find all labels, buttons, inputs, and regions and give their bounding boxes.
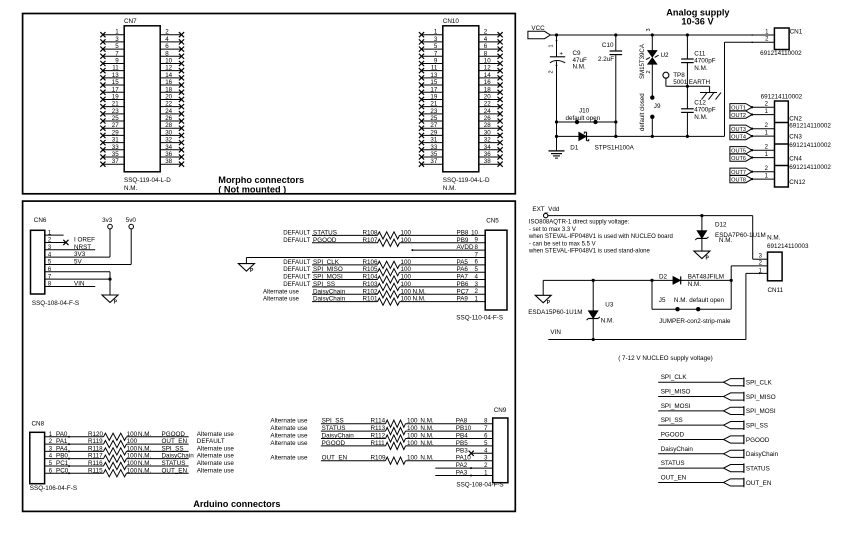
svg-text:N.M.: N.M.	[420, 455, 434, 462]
svg-text:SSQ-106-04-F-S: SSQ-106-04-F-S	[30, 485, 77, 492]
svg-text:4700pF: 4700pF	[694, 107, 716, 114]
ground D12	[694, 251, 710, 262]
svg-text:CN4: CN4	[789, 156, 802, 163]
svg-text:R108: R108	[363, 229, 379, 236]
svg-text:N.M.: N.M.	[694, 114, 708, 121]
svg-text:18: 18	[165, 86, 172, 93]
resistor R103 row SPI_SS to PB6	[283, 281, 485, 291]
svg-text:TP8: TP8	[673, 72, 685, 79]
svg-text:PA6: PA6	[457, 266, 469, 273]
svg-text:default closed: default closed	[639, 93, 646, 131]
svg-text:28: 28	[484, 122, 491, 129]
svg-text:SSQ-119-04-L-D: SSQ-119-04-L-D	[124, 177, 171, 184]
svg-text:NRST: NRST	[74, 244, 91, 251]
svg-text:38: 38	[165, 158, 172, 165]
wire CN1 pin2 to bottom bus	[725, 34, 775, 136]
svg-text:- set to max 3.3 V: - set to max 3.3 V	[529, 227, 576, 233]
svg-text:5v0: 5v0	[126, 217, 137, 224]
svg-text:R116: R116	[88, 460, 103, 467]
svg-text:12: 12	[165, 65, 172, 72]
svg-text:CN11: CN11	[768, 287, 784, 294]
svg-text:35: 35	[430, 151, 437, 158]
svg-text:N.M.: N.M.	[767, 234, 781, 241]
resistor R120 row PA0 to PGOOD	[45, 431, 235, 441]
svg-text:CN7: CN7	[124, 18, 137, 25]
note text ISO808 supply voltage	[528, 220, 673, 255]
svg-text:STATUS: STATUS	[661, 460, 685, 467]
Morpho connectors outline box	[23, 14, 516, 194]
svg-text:100: 100	[127, 453, 138, 460]
junction bottom bus at C12	[686, 135, 689, 138]
svg-text:J5: J5	[659, 297, 666, 304]
svg-text:31: 31	[112, 137, 119, 144]
connector CN11 691214110003	[759, 234, 809, 293]
svg-text:D2: D2	[659, 274, 668, 281]
svg-text:1: 1	[549, 44, 555, 47]
connector CN7	[100, 18, 184, 192]
resistor R113 row STATUS to PB10	[270, 425, 492, 435]
svg-text:11: 11	[112, 65, 119, 72]
svg-text:N.M.: N.M.	[688, 281, 702, 288]
resistor R115 row PC0 to OUT_EN	[45, 467, 235, 477]
svg-text:28: 28	[165, 122, 172, 129]
svg-text:32: 32	[484, 137, 491, 144]
svg-text:VIN: VIN	[550, 329, 561, 336]
svg-text:when STEVAL-IFP048V1 is used s: when STEVAL-IFP048V1 is used stand-alone	[528, 249, 651, 255]
svg-text:5: 5	[434, 43, 438, 50]
svg-text:8: 8	[165, 50, 169, 57]
svg-text:100: 100	[127, 467, 138, 474]
resistor R117 row PB0 to DaisyChain	[45, 453, 235, 463]
svg-text:100: 100	[407, 425, 418, 432]
svg-text:N.M.: N.M.	[138, 453, 152, 460]
wire CN9 pin2 stub	[435, 462, 492, 469]
svg-text:Arduino connectors: Arduino connectors	[193, 499, 280, 509]
ground CN5 pin7	[238, 264, 254, 275]
resistor R112 row DaisyChain to PB4	[270, 433, 492, 443]
svg-text:N.M.: N.M.	[413, 296, 427, 303]
svg-text:17: 17	[112, 86, 119, 93]
svg-text:23: 23	[112, 108, 119, 115]
svg-text:OUT8: OUT8	[731, 177, 746, 183]
signal flag PGOOD	[658, 431, 770, 444]
svg-text:R120: R120	[88, 431, 104, 438]
wire CN5 pin7 to ground	[246, 257, 485, 263]
svg-text:13: 13	[112, 72, 119, 79]
resistor R101 row DaisyChain to PA9	[263, 296, 485, 306]
svg-text:R102: R102	[363, 288, 379, 295]
svg-text:N.M.: N.M.	[674, 297, 688, 304]
svg-text:2: 2	[549, 70, 555, 73]
svg-text:( 7-12 V NUCLEO supply voltage: ( 7-12 V NUCLEO supply voltage)	[618, 355, 713, 362]
wire EXT_Vdd feed net	[543, 279, 731, 281]
svg-text:31: 31	[430, 137, 437, 144]
svg-text:691214110002: 691214110002	[760, 50, 802, 57]
svg-text:R113: R113	[371, 425, 386, 432]
svg-text:C11: C11	[694, 51, 706, 58]
svg-text:PB6: PB6	[457, 281, 469, 288]
svg-text:DaisyChain: DaisyChain	[661, 446, 694, 453]
svg-text:Alternate use: Alternate use	[197, 467, 235, 474]
svg-text:7: 7	[115, 50, 119, 57]
capacitor C10 2.2uF	[598, 35, 622, 136]
wire CN6 pin5 5V	[45, 258, 131, 265]
connector block CN2 CN3 CN4 CN12	[761, 93, 832, 187]
svg-text:OUT_EN: OUT_EN	[746, 480, 772, 487]
capacitor C12 4700pF	[681, 86, 716, 136]
svg-text:100: 100	[401, 296, 412, 303]
svg-text:N.M.: N.M.	[694, 65, 708, 72]
svg-text:R119: R119	[88, 438, 103, 445]
wire CN11 pin2 to D2 cathode	[731, 266, 767, 281]
svg-text:SSQ-110-04-F-S: SSQ-110-04-F-S	[456, 314, 503, 321]
ground ESDA15P60	[528, 280, 582, 316]
junction top bus at U2	[651, 33, 654, 36]
svg-text:R105: R105	[363, 266, 379, 273]
svg-text:DEFAULT: DEFAULT	[283, 237, 310, 244]
svg-text:14: 14	[165, 72, 172, 79]
svg-text:OUT6: OUT6	[731, 156, 746, 162]
svg-text:OUT4: OUT4	[731, 134, 746, 140]
svg-text:691214110002: 691214110002	[789, 164, 831, 171]
svg-text:24: 24	[165, 108, 172, 115]
svg-text:5V: 5V	[74, 258, 83, 265]
svg-text:N.M.: N.M.	[573, 64, 587, 71]
svg-text:25: 25	[430, 115, 437, 122]
svg-text:PB5: PB5	[456, 440, 468, 447]
junction bottom bus at C9	[555, 135, 558, 138]
svg-text:2: 2	[646, 70, 652, 73]
svg-text:PA5: PA5	[457, 259, 469, 266]
svg-text:DEFAULT: DEFAULT	[197, 438, 225, 445]
junction top bus at C9	[555, 33, 558, 36]
svg-text:DaisyChain: DaisyChain	[746, 451, 779, 458]
svg-text:R103: R103	[363, 281, 379, 288]
svg-text:30: 30	[165, 129, 172, 136]
svg-text:CN1: CN1	[790, 28, 803, 35]
svg-text:5: 5	[115, 43, 119, 50]
svg-text:CN6: CN6	[34, 217, 47, 224]
junction top bus at C11	[686, 33, 689, 36]
svg-text:29: 29	[112, 129, 119, 136]
junction CN6 gnd	[108, 278, 111, 281]
jumper J10 default open	[555, 108, 618, 125]
TVS diode U2 SM15T39CA	[639, 28, 669, 97]
svg-text:16: 16	[484, 79, 491, 86]
svg-text:27: 27	[430, 122, 437, 129]
power flag VCC	[528, 25, 550, 39]
svg-text:Alternate use: Alternate use	[263, 296, 300, 303]
svg-text:3v3: 3v3	[102, 217, 113, 224]
svg-text:37: 37	[430, 158, 437, 165]
svg-text:2: 2	[165, 29, 169, 36]
svg-text:33: 33	[430, 144, 437, 151]
junction EXT_Vdd at D12	[700, 214, 703, 217]
svg-text:SPI_SS: SPI_SS	[162, 445, 184, 452]
svg-text:- can be set to max 5.5 V: - can be set to max 5.5 V	[529, 241, 596, 247]
svg-text:22: 22	[484, 101, 491, 108]
label Morpho connectors title	[218, 175, 304, 194]
svg-text:ISO808AQTR-1 direct supply vol: ISO808AQTR-1 direct supply voltage:	[529, 220, 630, 226]
svg-text:R107: R107	[363, 237, 379, 244]
svg-text:JUMPER-con2-strip-male: JUMPER-con2-strip-male	[659, 318, 731, 325]
svg-text:ESDA15P60-1U1M: ESDA15P60-1U1M	[528, 309, 582, 316]
svg-text:J10: J10	[579, 108, 590, 115]
svg-text:SPI_CLK: SPI_CLK	[746, 380, 773, 387]
svg-text:SPI_MISO: SPI_MISO	[746, 394, 776, 401]
resistor R114 row SPI_SS to PA8	[270, 418, 492, 428]
svg-text:N.M.: N.M.	[443, 185, 457, 192]
svg-text:100: 100	[401, 259, 412, 266]
svg-text:CN12: CN12	[789, 179, 806, 186]
svg-text:Alternate use: Alternate use	[270, 425, 308, 432]
svg-text:PB9: PB9	[457, 237, 469, 244]
wire CN6 pin8 VIN	[45, 280, 95, 287]
junction bottom bus at U2	[651, 135, 654, 138]
svg-text:N.M.: N.M.	[420, 440, 434, 447]
svg-text:I OREF: I OREF	[74, 236, 95, 243]
resistor R111 row PGOOD to PB5	[270, 440, 492, 450]
signal flag SPI_MISO	[658, 389, 776, 402]
svg-text:PGOOD: PGOOD	[162, 431, 186, 438]
Arduino connectors outline box	[23, 201, 516, 511]
svg-text:3V3: 3V3	[74, 251, 86, 258]
connector CN10	[419, 18, 503, 192]
wire CN6 pin1 stub	[45, 234, 64, 236]
svg-text:36: 36	[165, 151, 172, 158]
test point TP8 5001	[663, 72, 710, 86]
svg-text:19: 19	[112, 93, 119, 100]
svg-text:12: 12	[484, 65, 491, 72]
svg-text:25: 25	[112, 115, 119, 122]
svg-text:21: 21	[112, 101, 119, 108]
svg-text:N.M.: N.M.	[420, 418, 434, 425]
svg-text:3: 3	[115, 36, 119, 43]
junction TP8 wire at C11C12	[686, 85, 689, 88]
svg-text:CN3: CN3	[789, 134, 802, 141]
svg-text:PA8: PA8	[456, 418, 468, 425]
svg-text:27: 27	[112, 122, 119, 129]
capacitor C11 4700pF	[681, 35, 716, 86]
ground CN6	[102, 295, 118, 306]
svg-text:PA2: PA2	[456, 462, 468, 469]
svg-text:1: 1	[115, 29, 119, 36]
svg-text:36: 36	[484, 151, 491, 158]
note text NUCLEO supply voltage	[618, 355, 713, 362]
svg-text:15: 15	[112, 79, 119, 86]
svg-text:SSQ-119-04-L-D: SSQ-119-04-L-D	[443, 177, 490, 184]
svg-text:100: 100	[401, 237, 412, 244]
diode U3 zener	[587, 280, 615, 339]
svg-text:SPI_MOSI: SPI_MOSI	[661, 403, 691, 410]
svg-text:100: 100	[127, 460, 138, 467]
svg-text:8: 8	[484, 50, 488, 57]
output flag OUT7 CN12 pin2	[730, 166, 775, 176]
svg-text:Alternate use: Alternate use	[270, 455, 308, 462]
svg-text:R109: R109	[371, 455, 387, 462]
svg-text:+: +	[559, 51, 563, 58]
svg-text:Alternate use: Alternate use	[197, 431, 235, 438]
svg-text:15: 15	[430, 79, 437, 86]
svg-text:1: 1	[434, 29, 438, 36]
svg-text:6: 6	[165, 43, 169, 50]
svg-text:30: 30	[484, 129, 491, 136]
svg-text:PGOOD: PGOOD	[661, 431, 685, 438]
svg-text:2.2uF: 2.2uF	[598, 56, 614, 63]
svg-text:SPI_SS: SPI_SS	[746, 423, 768, 430]
svg-text:DEFAULT: DEFAULT	[283, 259, 310, 266]
svg-text:D1: D1	[570, 145, 579, 152]
svg-text:11: 11	[431, 65, 438, 72]
svg-text:100: 100	[401, 229, 412, 236]
connector CN5	[456, 217, 507, 321]
svg-text:24: 24	[484, 108, 491, 115]
svg-text:PA3: PA3	[456, 470, 468, 477]
svg-text:100: 100	[407, 455, 418, 462]
svg-text:100: 100	[407, 440, 418, 447]
jumper J5 JUMPER-con2-strip-male	[652, 280, 731, 325]
resistor R105 row SPI_MISO to PA6	[283, 266, 485, 276]
svg-text:N.M.: N.M.	[124, 185, 138, 192]
svg-text:100: 100	[127, 445, 138, 452]
svg-text:PB4: PB4	[456, 433, 468, 440]
power symbol 5v0	[126, 217, 137, 264]
signal flag SPI_CLK	[658, 374, 772, 387]
svg-text:N.M.: N.M.	[138, 431, 152, 438]
svg-text:34: 34	[484, 144, 491, 151]
svg-text:4: 4	[165, 36, 169, 43]
svg-text:9: 9	[115, 57, 119, 64]
resistor R118 row PA4 to SPI_SS	[45, 445, 235, 455]
svg-text:DEFAULT: DEFAULT	[283, 229, 310, 236]
wire CN5 pin8 AVDD	[411, 244, 485, 251]
svg-text:C12: C12	[694, 99, 706, 106]
signal flag STATUS	[658, 460, 770, 473]
svg-text:PB8: PB8	[457, 229, 469, 236]
wire CN9 pin4 no-connect stub	[456, 447, 493, 456]
svg-text:100: 100	[127, 438, 138, 445]
svg-text:100: 100	[407, 418, 418, 425]
svg-text:34: 34	[165, 144, 172, 151]
svg-text:N.M.: N.M.	[420, 433, 434, 440]
svg-text:17: 17	[430, 86, 437, 93]
svg-text:23: 23	[430, 108, 437, 115]
output flag OUT6 CN4 pin1	[730, 152, 775, 162]
svg-text:13: 13	[430, 72, 437, 79]
resistor R109 row OUT_EN to PA10	[270, 455, 492, 465]
resistor R107 row PGOOD to PB9	[283, 237, 485, 247]
capacitor C9 47uF	[549, 35, 588, 136]
resistor R119 row PA1 to OUT_EN	[45, 438, 225, 448]
svg-text:DEFAULT: DEFAULT	[283, 266, 310, 273]
svg-text:R101: R101	[363, 296, 379, 303]
svg-text:29: 29	[430, 129, 437, 136]
svg-text:PGOOD: PGOOD	[746, 437, 770, 444]
svg-text:20: 20	[165, 93, 172, 100]
diode D12 ESDA7P60-1U1M	[695, 216, 765, 252]
signal flag SPI_MOSI	[658, 403, 776, 416]
svg-text:N.M.: N.M.	[719, 237, 733, 244]
resistor R104 row SPI_MOSI to PA7	[283, 274, 485, 284]
svg-text:OUT_EN: OUT_EN	[661, 474, 687, 481]
svg-text:SPI_SS: SPI_SS	[661, 417, 683, 424]
svg-text:3: 3	[434, 36, 438, 43]
svg-text:J9: J9	[654, 103, 661, 110]
svg-text:691214110002: 691214110002	[761, 93, 803, 100]
wire CN11 pin1 to VIN	[746, 273, 768, 340]
svg-text:100: 100	[401, 288, 412, 295]
svg-text:STPS1H100A: STPS1H100A	[595, 145, 635, 152]
svg-text:R115: R115	[88, 467, 103, 474]
svg-text:32: 32	[165, 137, 172, 144]
svg-text:5001: 5001	[673, 79, 688, 86]
resistor R102 row DaisyChain to PC7	[263, 288, 485, 298]
power terminal EXT_Vdd	[532, 206, 559, 218]
connector CN6	[31, 217, 80, 307]
svg-text:DEFAULT: DEFAULT	[283, 274, 310, 281]
svg-text:R118: R118	[88, 445, 103, 452]
svg-text:37: 37	[112, 158, 119, 165]
wire CN6 pin2 IOREF no-connect	[45, 236, 95, 245]
wire VCC top bus	[550, 34, 774, 36]
svg-text:6: 6	[484, 43, 488, 50]
resistor R108 row STATUS to PB8	[283, 229, 485, 239]
svg-text:D12: D12	[715, 222, 727, 229]
earth chassis symbol EARTH	[689, 79, 721, 99]
svg-text:Alternate use: Alternate use	[270, 433, 308, 440]
svg-text:100: 100	[401, 274, 412, 281]
junction top bus at C10	[614, 33, 617, 36]
junction VIN at U3	[592, 338, 595, 341]
svg-text:N.M.: N.M.	[138, 445, 152, 452]
output flag OUT5 CN4 pin2	[730, 145, 775, 155]
resistor R116 row PC1 to STATUS	[45, 460, 235, 470]
svg-text:691214110002: 691214110002	[789, 142, 831, 149]
wire CN6 pin4 3V3	[45, 251, 110, 258]
svg-text:BAT48JFILM: BAT48JFILM	[688, 274, 724, 281]
svg-text:691214110003: 691214110003	[767, 243, 809, 250]
svg-text:PB10: PB10	[456, 425, 472, 432]
wire CN6 pin3 NRST	[45, 244, 95, 251]
svg-text:Alternate use: Alternate use	[197, 460, 235, 467]
svg-text:26: 26	[165, 115, 172, 122]
svg-text:CN9: CN9	[494, 407, 507, 414]
svg-text:R111: R111	[371, 440, 386, 447]
svg-text:AVDD: AVDD	[457, 244, 474, 251]
svg-text:SSQ-108-04-F-S: SSQ-108-04-F-S	[32, 300, 79, 307]
svg-text:4700pF: 4700pF	[694, 58, 716, 65]
svg-text:DaisyChain: DaisyChain	[162, 453, 195, 460]
svg-text:N.M.: N.M.	[420, 425, 434, 432]
svg-text:C10: C10	[602, 42, 614, 49]
svg-text:OUT2: OUT2	[731, 113, 746, 119]
junction bottom bus at C10	[614, 135, 617, 138]
svg-text:35: 35	[112, 151, 119, 158]
ground analog	[549, 136, 565, 158]
svg-text:33: 33	[112, 144, 119, 151]
svg-text:26: 26	[484, 115, 491, 122]
svg-text:VIN: VIN	[74, 280, 85, 287]
output flag OUT3 CN3 pin2	[730, 123, 775, 133]
svg-text:100: 100	[407, 433, 418, 440]
power symbol 3v3	[102, 217, 113, 257]
label Analog supply title	[666, 8, 730, 27]
svg-text:N.M.: N.M.	[413, 288, 427, 295]
svg-text:Alternate use: Alternate use	[270, 418, 308, 425]
wire bottom bus	[557, 135, 725, 137]
svg-text:STATUS: STATUS	[746, 466, 770, 473]
svg-text:R114: R114	[371, 418, 386, 425]
